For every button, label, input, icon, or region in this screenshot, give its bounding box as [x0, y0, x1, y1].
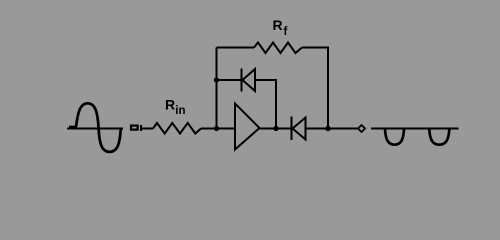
wire diode D2 to output terminal: [306, 128, 359, 130]
wire Rf top left segment: [217, 47, 255, 49]
diode D1 cathode bar: [241, 69, 243, 92]
svg-text:R: R: [273, 17, 283, 33]
wire node to diode D1: [217, 79, 242, 81]
wire Rin to op-amp input: [201, 128, 235, 130]
output waveform baseline: [371, 128, 459, 130]
output waveform first negative hump: [385, 129, 404, 145]
diode D1 triangle: [243, 69, 256, 91]
wire input terminal to Rin: [141, 128, 153, 130]
input terminal tick: [140, 125, 142, 131]
node output junction: [325, 126, 330, 131]
input terminal square: [131, 126, 138, 130]
diode D2 triangle: [293, 118, 306, 140]
node input junction: [214, 126, 219, 131]
wire Rf to output node: [302, 48, 328, 129]
input source sine waveform: [69, 103, 121, 152]
resistor Rin: [153, 123, 201, 134]
diode D2 cathode bar: [291, 117, 293, 141]
svg-text:R: R: [165, 97, 175, 113]
output waveform second negative hump: [429, 129, 449, 145]
input source sine waveform baseline: [67, 128, 123, 130]
svg-text:f: f: [284, 26, 288, 38]
node diode feedback junction: [214, 77, 219, 82]
wire feedback vertical left: [216, 48, 218, 129]
node op-amp output junction: [273, 126, 278, 131]
resistor Rf: [254, 43, 302, 54]
op-amp U1: [235, 104, 260, 150]
output terminal diamond: [358, 125, 365, 132]
wire diode D1 to op-amp output: [255, 80, 276, 129]
svg-text:in: in: [175, 105, 185, 117]
wire op-amp output: [260, 128, 292, 130]
